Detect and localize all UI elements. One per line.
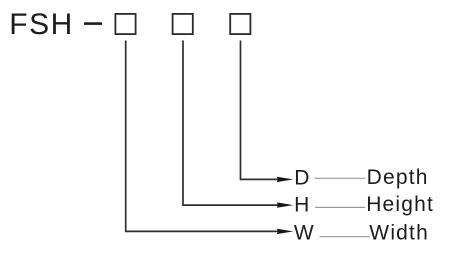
svg-text:FSH: FSH	[9, 8, 74, 41]
arrowhead D	[277, 177, 294, 182]
digit box 3 (Depth)	[230, 14, 250, 34]
svg-text:W: W	[294, 222, 314, 245]
connector line W to Width	[319, 236, 369, 238]
separator dash	[84, 22, 102, 25]
arrowhead W	[277, 229, 294, 234]
digit box 2 (Height)	[173, 14, 193, 34]
wire from box 2 to H row	[183, 41, 279, 206]
arrowhead H	[277, 202, 294, 207]
connector line H to Height	[315, 206, 365, 208]
svg-text:Height: Height	[366, 193, 434, 216]
wire from box 3 to D row	[241, 41, 280, 180]
svg-text:Depth: Depth	[367, 166, 429, 189]
wire from box 1 to W row	[126, 41, 279, 232]
digit box 1 (Width)	[115, 14, 135, 34]
svg-text:D: D	[294, 167, 309, 190]
svg-text:H: H	[294, 194, 309, 217]
connector line D to Depth	[315, 177, 366, 179]
svg-text:Width: Width	[369, 222, 429, 245]
